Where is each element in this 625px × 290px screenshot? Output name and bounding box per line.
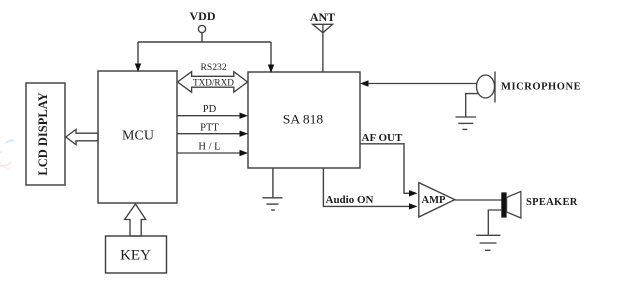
svg-text:KEY: KEY [120,248,151,264]
svg-text:AMP: AMP [422,195,446,206]
svg-text:PTT: PTT [200,123,219,134]
svg-text:MCU: MCU [122,129,154,144]
svg-text:SA 818: SA 818 [283,112,324,127]
svg-text:ANT: ANT [310,10,335,24]
svg-text:RS232: RS232 [201,62,227,73]
svg-text:Audio ON: Audio ON [326,194,374,206]
svg-text:VDD: VDD [190,9,216,23]
svg-text:MICROPHONE: MICROPHONE [501,82,581,93]
svg-text:H / L: H / L [198,142,220,153]
svg-text:SPEAKER: SPEAKER [526,197,578,208]
svg-text:LCD DISPLAY: LCD DISPLAY [36,92,50,175]
svg-text:TXD/RXD: TXD/RXD [193,77,234,87]
svg-text:PD: PD [203,104,217,115]
svg-text:AF OUT: AF OUT [362,132,404,144]
